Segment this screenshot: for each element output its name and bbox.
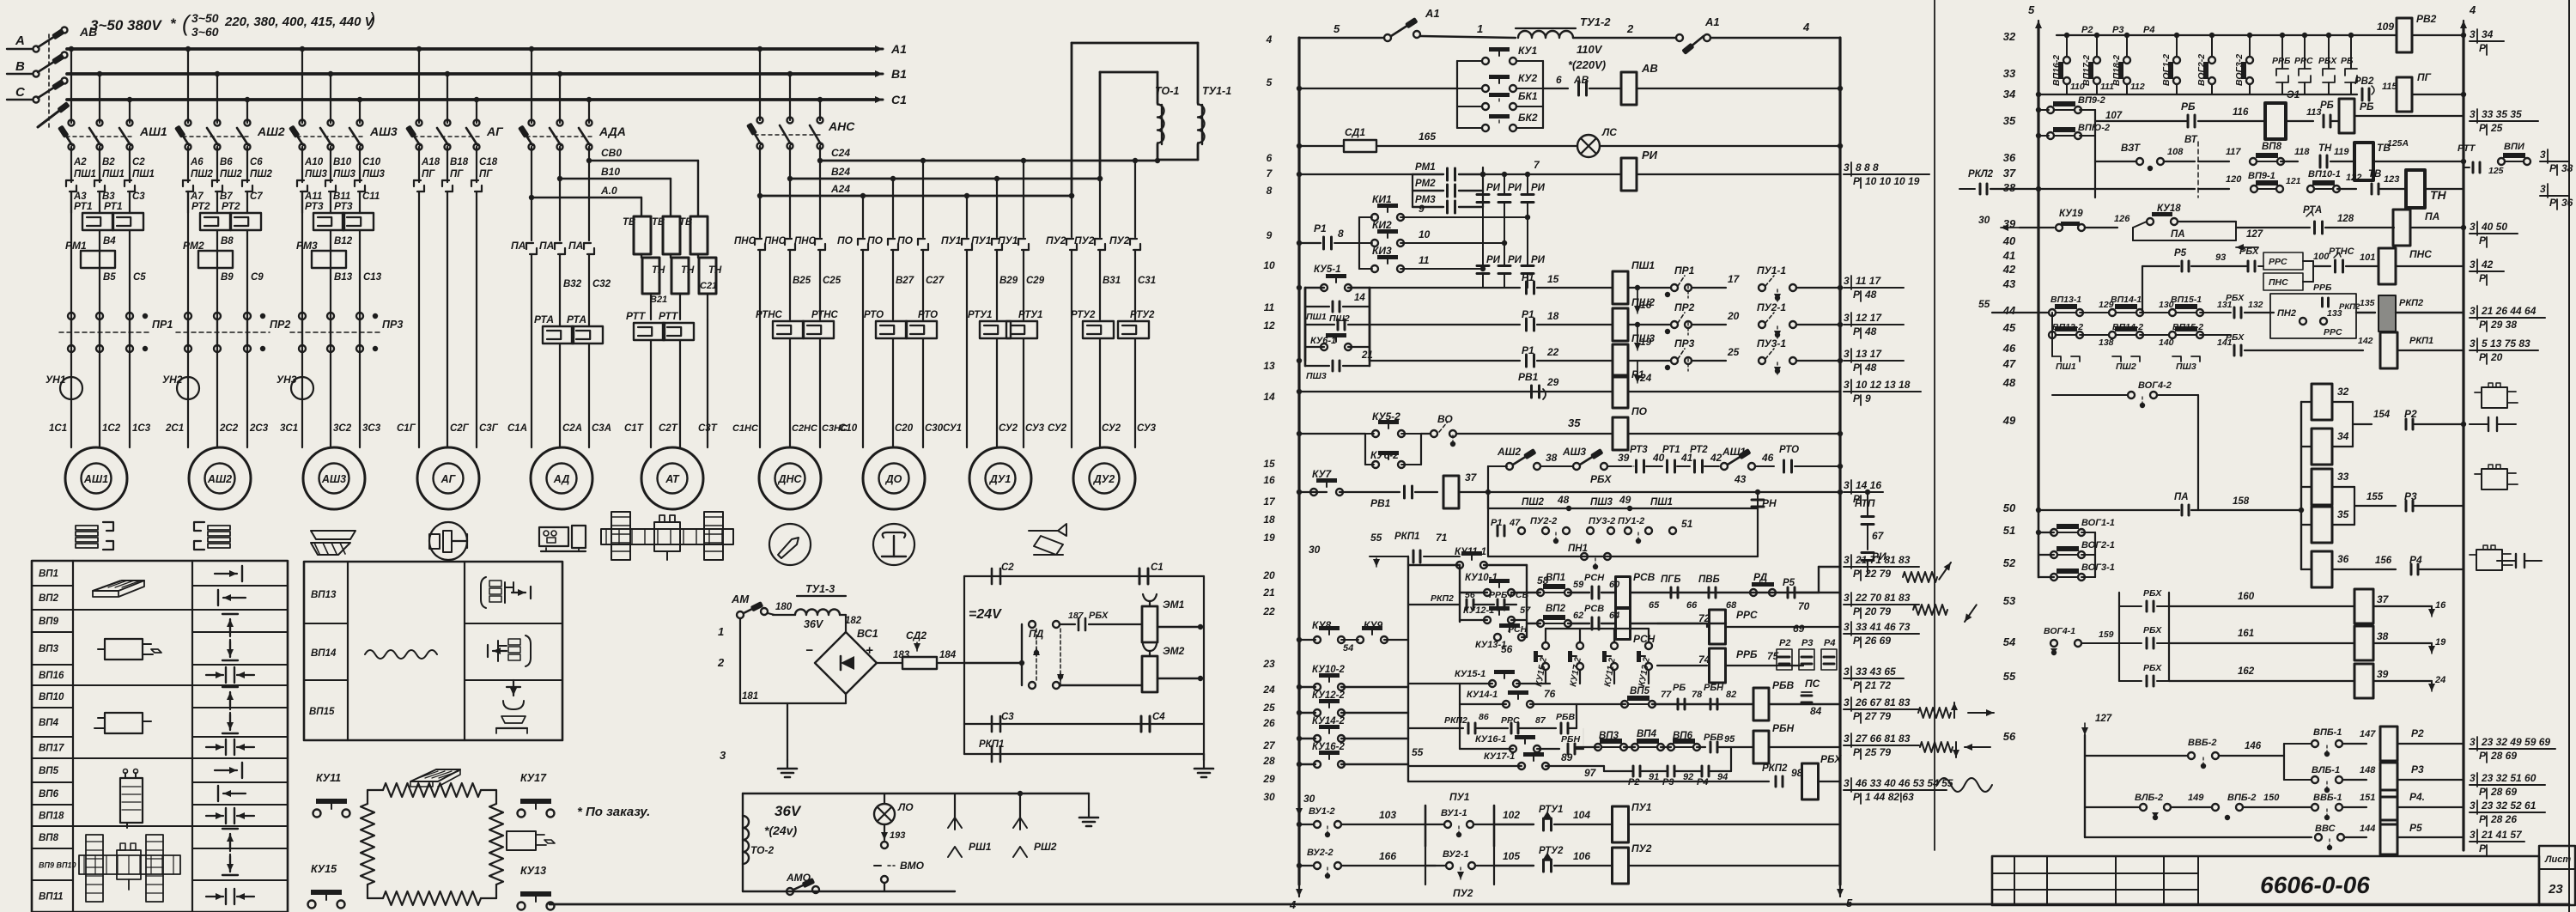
svg-text:3С1: 3С1 [280, 423, 298, 434]
svg-text:2: 2 [717, 656, 725, 669]
svg-text:142: 142 [2358, 336, 2373, 346]
svg-text:С: С [15, 85, 26, 100]
sine mark [1937, 778, 1992, 792]
svg-text:6: 6 [1267, 152, 1273, 164]
svg-text:РТУ2: РТУ2 [1539, 846, 1564, 856]
svg-text:10: 10 [1263, 259, 1275, 271]
svg-text:АШ2: АШ2 [207, 473, 232, 485]
row 36 ТВ [2095, 161, 2136, 162]
svg-text:ПШ2: ПШ2 [220, 169, 243, 179]
svg-text:ПГ: ПГ [2417, 71, 2432, 83]
table ВП list [32, 561, 288, 912]
svg-text:С3: С3 [132, 192, 145, 202]
svg-text:ВОГ4-1: ВОГ4-1 [2044, 626, 2075, 636]
svg-text:РИ: РИ [1486, 183, 1501, 193]
svg-text:53: 53 [2003, 594, 2016, 607]
svg-text:КУ7: КУ7 [1312, 468, 1333, 480]
contact КУ1 [1457, 60, 1482, 62]
svg-text:Р: Р [1853, 568, 1861, 580]
svg-text:РКП2: РКП2 [2339, 302, 2360, 312]
svg-text:ПУ3-2: ПУ3-2 [1589, 516, 1615, 526]
ground rectifier [787, 703, 788, 760]
svg-text:3: 3 [2470, 800, 2476, 812]
svg-text:СУ3: СУ3 [1137, 423, 1157, 434]
svg-text:ПШ1: ПШ1 [1306, 312, 1327, 322]
svg-text:22: 22 [1546, 346, 1559, 358]
svg-text:БК1: БК1 [1518, 90, 1538, 102]
svg-text:АШ1: АШ1 [83, 473, 108, 485]
svg-text:Р: Р [1853, 746, 1861, 758]
svg-text:39: 39 [1618, 452, 1630, 464]
svg-text:48: 48 [2002, 376, 2016, 389]
svg-text:ПА: ПА [2171, 229, 2185, 240]
svg-text:36: 36 [2003, 151, 2016, 164]
svg-text:РТ2: РТ2 [1690, 445, 1708, 455]
contacts ВП3 ВП4 ВП6 row [1577, 746, 1599, 748]
svg-text:128: 128 [2337, 214, 2354, 224]
svg-text:9: 9 [1865, 392, 1871, 404]
svg-text:ВВБ-2: ВВБ-2 [2188, 738, 2216, 748]
svg-text:РБВ: РБВ [1772, 679, 1795, 691]
svg-text:С20: С20 [895, 423, 914, 434]
svg-text:С10: С10 [839, 423, 858, 434]
svg-text:125А: 125А [2387, 138, 2409, 149]
svg-text:ПР2: ПР2 [270, 319, 290, 331]
sheet label box [2539, 846, 2575, 905]
svg-text:ПУ1: ПУ1 [971, 234, 992, 246]
svg-text:ВП13-1: ВП13-1 [2050, 295, 2081, 305]
icon slab above heater [410, 769, 460, 781]
svg-text:Р: Р [2479, 786, 2487, 798]
svg-text:ПГ: ПГ [422, 169, 435, 179]
svg-text:*(24v): *(24v) [764, 824, 797, 837]
svg-text:49: 49 [2002, 414, 2016, 427]
contact РРС bracket [2304, 35, 2306, 69]
resistor mark 2 [1913, 605, 1947, 615]
svg-text:1С1: 1С1 [49, 423, 67, 434]
coil Э35 [2301, 524, 2312, 526]
svg-text:23: 23 [2548, 882, 2563, 897]
current transformer УН1 [60, 377, 82, 399]
svg-text:АШ2: АШ2 [1497, 446, 1521, 458]
svg-text:С6: С6 [250, 157, 263, 167]
svg-text:КУ14-2: КУ14-2 [1312, 716, 1345, 727]
svg-text:ПШ2: ПШ2 [2116, 362, 2136, 372]
branch ДУ1 feeder [964, 193, 969, 198]
svg-text:РТТ: РТТ [659, 310, 679, 322]
svg-text:РКП1: РКП1 [979, 739, 1004, 750]
svg-text:39: 39 [2377, 668, 2389, 680]
svg-text:РТУ2: РТУ2 [1071, 310, 1096, 320]
svg-text:77: 77 [1661, 690, 1672, 700]
svg-text:РШ1: РШ1 [969, 841, 992, 853]
svg-text:А2: А2 [73, 157, 87, 167]
svg-text:ПУ2-1: ПУ2-1 [1757, 301, 1786, 313]
svg-text:ВП18-2: ВП18-2 [2111, 55, 2122, 86]
svg-text:3: 3 [720, 749, 726, 762]
svg-text:РВ2: РВ2 [2416, 13, 2437, 25]
wire В24 [787, 176, 793, 181]
svg-text:3~50 380V: 3~50 380V [90, 17, 162, 33]
svg-text:29: 29 [1262, 773, 1275, 785]
svg-text:21: 21 [1262, 587, 1275, 599]
svg-text:РРС: РРС [2324, 327, 2342, 337]
svg-text:РКП1: РКП1 [2409, 336, 2433, 346]
svg-text:27: 27 [1262, 739, 1276, 751]
24V control box [964, 575, 1204, 577]
svg-text:Р1: Р1 [1522, 344, 1534, 356]
wire 155 Р3 [2332, 486, 2354, 488]
svg-text:69: 69 [1793, 623, 1805, 635]
svg-text:ВП16-2: ВП16-2 [2051, 55, 2062, 86]
svg-text:ВП15: ВП15 [309, 707, 335, 717]
svg-text:ПУ1-1: ПУ1-1 [1757, 264, 1786, 277]
svg-text:КУ17-1: КУ17-1 [1484, 751, 1515, 762]
electromagnet ЭМ1 [1142, 606, 1157, 642]
current transformer УН2 [177, 377, 199, 399]
svg-text:А24: А24 [830, 183, 850, 195]
section divider [1934, 0, 1935, 850]
svg-text:33: 33 [2337, 471, 2349, 483]
capacitor С2 [991, 568, 993, 584]
svg-text:62: 62 [1573, 611, 1583, 621]
svg-text:35: 35 [2337, 508, 2349, 520]
svg-text:23 32 51 60: 23 32 51 60 [2481, 772, 2537, 784]
capacitor icon 1 [2470, 423, 2488, 425]
svg-text:1 44 82|63: 1 44 82|63 [1865, 791, 1914, 803]
row 41 ПНС [2142, 265, 2179, 267]
svg-text:С1: С1 [1151, 562, 1163, 573]
svg-text:86: 86 [1479, 712, 1489, 722]
svg-text:38: 38 [2561, 162, 2573, 174]
svg-text:161: 161 [2238, 629, 2254, 639]
coil ПШ3 [1613, 344, 1628, 377]
svg-text:ВП9 ВП10: ВП9 ВП10 [39, 861, 76, 870]
svg-text:122: 122 [2346, 173, 2361, 183]
svg-text:УН1: УН1 [46, 374, 66, 386]
icon switch body ВП3 [105, 639, 143, 660]
svg-text:С1А: С1А [507, 423, 527, 434]
svg-text:С2А: С2А [562, 423, 582, 434]
svg-text:С29: С29 [1026, 276, 1045, 286]
svg-text:ВП10-1: ВП10-1 [2308, 169, 2341, 179]
svg-text:3: 3 [1844, 479, 1850, 491]
svg-text:2С3: 2С3 [249, 423, 269, 434]
icon ВП15 press [513, 680, 514, 696]
coil ПШ1 [1613, 271, 1628, 304]
svg-text:116: 116 [2233, 107, 2249, 118]
left column buttons КУ10-2 КУ12-2 КУ14-2 КУ16-2 [1297, 684, 1302, 690]
wire 154 Р2 [2332, 401, 2353, 403]
svg-text:РБХ: РБХ [1089, 611, 1109, 621]
contact ВП18-2 [2126, 35, 2128, 57]
svg-text:35: 35 [1568, 416, 1581, 429]
wire 156 Р4 [2332, 568, 2354, 570]
branch АШ1 wires upper [70, 147, 72, 182]
svg-text:КУ16-1: КУ16-1 [1475, 734, 1506, 745]
svg-text:ПШ3: ПШ3 [1306, 371, 1327, 381]
wire В10 [557, 176, 562, 181]
svg-text:В8: В8 [221, 236, 234, 246]
svg-text:182: 182 [845, 616, 862, 626]
36V lighting circuit [743, 793, 1089, 794]
svg-text:ПВБ: ПВБ [1698, 575, 1720, 585]
svg-text:ПУ2: ПУ2 [1046, 234, 1066, 246]
contact РМ3 [1413, 206, 1443, 208]
row ВЛБ-2 ВПБ-2 ВВБ-1 [2085, 806, 2140, 808]
svg-text:КУ11: КУ11 [316, 772, 341, 784]
svg-text:Р5: Р5 [2409, 822, 2422, 834]
svg-text:3: 3 [1844, 379, 1850, 391]
branch ДУ2 feeder [1069, 193, 1074, 198]
svg-text:СД1: СД1 [1345, 126, 1365, 138]
svg-text:+: + [866, 643, 873, 658]
transformer ТО-1 inner loop [1100, 71, 1157, 74]
svg-text:ВОГ2-2: ВОГ2-2 [2196, 54, 2207, 86]
svg-text:ВВС: ВВС [2315, 824, 2336, 834]
svg-text:В27: В27 [896, 276, 914, 286]
svg-text:РИ: РИ [1642, 149, 1658, 161]
svg-text:А1: А1 [1704, 15, 1720, 28]
svg-text:РТУ1: РТУ1 [1539, 805, 1563, 815]
svg-text:5: 5 [2028, 3, 2035, 16]
coil РВ1 [1443, 476, 1459, 508]
svg-text:РТНС: РТНС [811, 310, 839, 320]
svg-text:РВ1: РВ1 [1370, 497, 1391, 509]
rows ПШ1 ПШ2 ПШ3 [1304, 288, 1307, 361]
svg-text:ЛО: ЛО [897, 801, 914, 813]
svg-text:РСН: РСН [1584, 573, 1605, 583]
svg-text:*(220V): *(220V) [1568, 58, 1606, 71]
icon slab ВП1 [93, 581, 144, 591]
svg-text:34: 34 [2337, 430, 2349, 442]
ladder left rail [1297, 38, 1300, 885]
svg-text:Р4: Р4 [1824, 638, 1835, 648]
icon cross-slide АТ [611, 512, 630, 560]
svg-text:46: 46 [1761, 452, 1774, 464]
svg-text:РКП1: РКП1 [1394, 532, 1419, 542]
svg-text:119: 119 [2334, 147, 2349, 157]
svg-text:29: 29 [1546, 376, 1559, 388]
svg-text:3: 3 [2540, 149, 2546, 161]
svg-text:ВОГ3-1: ВОГ3-1 [2081, 562, 2115, 573]
svg-text:102: 102 [1503, 809, 1520, 821]
svg-text:ПУ2-2: ПУ2-2 [1530, 516, 1557, 526]
svg-text:24: 24 [2434, 675, 2445, 685]
svg-text:2С1: 2С1 [165, 423, 184, 434]
svg-text:Р5: Р5 [1783, 578, 1795, 588]
svg-text:30: 30 [1309, 544, 1321, 556]
svg-text:ВП5: ВП5 [39, 766, 59, 776]
svg-text:105: 105 [1503, 850, 1520, 862]
svg-text:ПНС: ПНС [764, 236, 787, 246]
button КИ1 [1359, 216, 1372, 218]
svg-text:Р: Р [2479, 750, 2487, 762]
icon chuck АШ2 [208, 526, 230, 530]
svg-text:РБХ: РБХ [2143, 663, 2162, 673]
svg-text:76: 76 [1544, 688, 1556, 700]
svg-text:ПА: ПА [2174, 492, 2189, 502]
svg-text:18: 18 [1547, 310, 1559, 322]
svg-text:РВ2: РВ2 [2354, 76, 2374, 87]
svg-text:РИ: РИ [1486, 255, 1501, 265]
svg-text:РСВ: РСВ [1584, 604, 1604, 614]
svg-text:Э1: Э1 [2287, 88, 2300, 100]
svg-text:Р: Р [2479, 272, 2487, 284]
svg-text:ВЛБ-1: ВЛБ-1 [2312, 765, 2340, 775]
svg-text:55: 55 [1978, 298, 1990, 310]
icon pump АГ [429, 522, 467, 560]
svg-text:В2: В2 [102, 157, 115, 167]
svg-text:РТТ: РТТ [626, 310, 647, 322]
switch АШ1 [69, 120, 75, 126]
svg-text:11: 11 [1419, 254, 1430, 266]
contact ВВБ-2 [2085, 755, 2188, 757]
svg-text:132: 132 [2248, 300, 2263, 310]
plug icon 1 [2482, 387, 2507, 408]
svg-text:9: 9 [1419, 203, 1425, 215]
svg-text:93: 93 [2215, 252, 2226, 263]
svg-text:ВП14: ВП14 [311, 648, 337, 659]
svg-text:СВ0: СВ0 [601, 147, 622, 159]
svg-text:С2НС: С2НС [792, 423, 818, 434]
svg-text:РТО: РТО [864, 310, 884, 320]
svg-text:РСВ: РСВ [1633, 571, 1656, 583]
boxed РРС ПНС [2263, 252, 2303, 270]
svg-text:ПУ1: ПУ1 [1449, 791, 1470, 803]
svg-text:ВТ: ВТ [2184, 135, 2198, 145]
svg-text:ВП18: ВП18 [39, 812, 64, 822]
svg-text:54: 54 [2003, 635, 2016, 648]
svg-text:2: 2 [1626, 22, 1634, 35]
branch АШ3 feeder taps [300, 46, 305, 52]
svg-text:180: 180 [775, 602, 793, 612]
svg-text:В10: В10 [333, 157, 352, 167]
svg-text:138: 138 [2099, 337, 2114, 348]
svg-text:25 79: 25 79 [1864, 746, 1891, 758]
svg-text:ТВ: ТВ [2368, 169, 2381, 179]
svg-text:25: 25 [1262, 702, 1275, 714]
svg-text:Р: Р [2479, 42, 2487, 54]
wire С24 [817, 158, 823, 163]
svg-text:Р: Р [2479, 351, 2487, 363]
svg-text:3: 3 [1844, 275, 1850, 287]
svg-text:С4: С4 [1152, 712, 1165, 722]
svg-text:35: 35 [2003, 114, 2016, 127]
svg-text:82: 82 [1726, 690, 1736, 700]
capacitor РКП1 [991, 746, 993, 762]
svg-text:154: 154 [2373, 410, 2391, 420]
contact ВП15-2 [2169, 331, 2176, 338]
svg-text:ЭМ2: ЭМ2 [1163, 645, 1185, 657]
svg-text:В13: В13 [334, 272, 353, 283]
svg-text:ПР3: ПР3 [1674, 337, 1695, 350]
svg-text:37: 37 [1465, 471, 1478, 483]
svg-text:РТО: РТО [918, 310, 938, 320]
svg-text:РРБ: РРБ [2272, 56, 2291, 66]
svg-text:181: 181 [742, 691, 758, 702]
contact ВП8 [2250, 158, 2257, 165]
icon cylinder ВП6 [120, 778, 143, 823]
coil ПУ1 [1613, 806, 1629, 842]
branch АШ1 feeder taps [69, 46, 74, 52]
svg-text:13 17: 13 17 [1856, 348, 1882, 360]
svg-text:37: 37 [2377, 593, 2390, 605]
svg-text:15: 15 [1263, 458, 1275, 470]
svg-text:8 8 8: 8 8 8 [1856, 161, 1879, 173]
svg-text:Лист: Лист [2544, 854, 2571, 865]
svg-text:РШ2: РШ2 [1034, 841, 1057, 853]
svg-text:135: 135 [2360, 298, 2375, 308]
svg-text:С18: С18 [479, 157, 498, 167]
coil ПО [1613, 417, 1628, 450]
svg-text:112: 112 [2130, 82, 2145, 92]
svg-text:159: 159 [2099, 629, 2114, 640]
svg-text:34: 34 [2003, 88, 2016, 100]
svg-text:В9: В9 [221, 272, 234, 283]
svg-text:С3: С3 [1001, 712, 1014, 722]
svg-text:37: 37 [2003, 167, 2016, 179]
svg-text:В25: В25 [793, 276, 811, 286]
coil ПА [2393, 210, 2410, 246]
svg-text:156: 156 [2375, 556, 2392, 566]
svg-text:С31: С31 [1138, 276, 1156, 286]
svg-text:27 79: 27 79 [1864, 710, 1891, 722]
coil ТВ bold [2354, 143, 2373, 180]
svg-text:АГ: АГ [486, 125, 504, 138]
svg-text:КУ15-1: КУ15-1 [1455, 669, 1485, 679]
svg-text:15: 15 [1547, 273, 1559, 285]
link 41 row to left rail [2142, 266, 2143, 313]
svg-text:11 17: 11 17 [1856, 275, 1881, 287]
svg-text:ПШ1: ПШ1 [1650, 497, 1673, 508]
svg-text:Р2: Р2 [2081, 25, 2093, 35]
row ПШ1 [1370, 287, 1520, 289]
resistor mark 1 [1903, 572, 1937, 582]
svg-text:ВП15-2: ВП15-2 [2172, 322, 2203, 332]
svg-text:ПО: ПО [1631, 405, 1648, 417]
svg-text:РТ1: РТ1 [74, 200, 93, 212]
svg-text:104: 104 [1573, 809, 1590, 821]
svg-text:ВМО: ВМО [900, 860, 925, 872]
svg-text:ПШ2: ПШ2 [1522, 497, 1545, 508]
svg-text:С32: С32 [592, 279, 611, 289]
svg-text:ПШ3: ПШ3 [1590, 497, 1613, 508]
svg-text:3: 3 [1844, 696, 1850, 708]
svg-text:47: 47 [2002, 357, 2016, 370]
svg-text:18: 18 [1263, 514, 1275, 526]
svg-text:29 38: 29 38 [2490, 319, 2517, 331]
svg-text:126: 126 [2114, 214, 2130, 224]
svg-text:55: 55 [2003, 670, 2016, 683]
svg-text:16: 16 [2435, 600, 2446, 611]
capacitor С1 [1139, 568, 1141, 584]
svg-text:1С3: 1С3 [132, 423, 151, 434]
svg-text:28: 28 [1262, 755, 1275, 767]
svg-text:3: 3 [1844, 554, 1850, 566]
contact ВОГ3-2 [2249, 35, 2251, 57]
svg-text:40 50: 40 50 [2481, 221, 2507, 233]
button ВП10-2 [2038, 135, 2049, 137]
coil РКП2 shaded [2379, 295, 2396, 331]
coil РБН [1753, 731, 1769, 763]
svg-text:ПНС: ПНС [2269, 277, 2288, 288]
wire СВ0 [586, 158, 592, 163]
svg-text:108: 108 [2167, 147, 2184, 157]
svg-text:РТ1: РТ1 [104, 200, 123, 212]
svg-text:5 13 75 83: 5 13 75 83 [2482, 337, 2530, 350]
svg-text:С25: С25 [823, 276, 841, 286]
